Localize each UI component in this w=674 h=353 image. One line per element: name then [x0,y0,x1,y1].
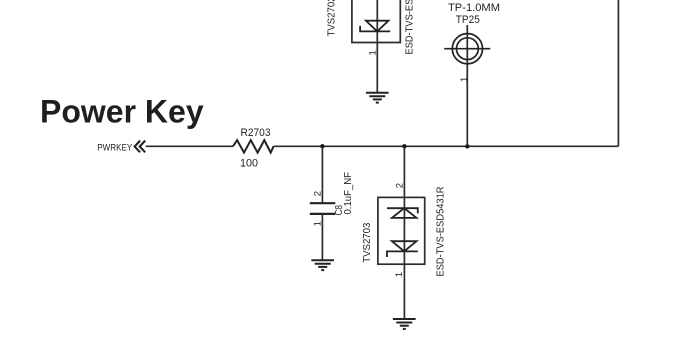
svg-text:PWRKEY: PWRKEY [97,143,133,154]
svg-text:TVS2702: TVS2702 [326,0,337,37]
svg-text:2: 2 [312,191,323,196]
label R2703 [241,127,271,139]
TVS diode U TVS2702 body box cut off at top [352,0,400,43]
wire R2703 to corner (main bus) [274,145,619,147]
ground below C8 [311,260,334,270]
capacitor C8 [310,203,336,214]
value ESD-TVS-ESD5431R [436,187,447,277]
wire bus up to test point TP25 [466,25,468,146]
wire through TVS2703 box [403,197,405,264]
pin 1 of C8 [313,221,324,226]
test point TP25 symbol outer circle [452,34,482,64]
pin 1 of TVS2702 [368,50,379,55]
pin 1 of TVS2703 [394,272,405,277]
node junction at TVS2703 branch [402,144,406,148]
label TP25 [456,14,480,26]
svg-text:TVS2703: TVS2703 [362,222,373,262]
label TVS2702 cut at top [326,0,337,37]
svg-text:TP25: TP25 [456,14,480,26]
pin 2 of TVS2703 [394,183,405,188]
label TP-1.0MM [448,2,500,14]
svg-text:ESD-TVS-ESD5431R: ESD-TVS-ESD5431R [405,0,416,55]
node junction at TP25 branch [465,144,469,148]
svg-text:R2703: R2703 [241,127,271,139]
value 0.1uF_NF [343,172,354,215]
off-page connector arrow PWRKEY [135,141,146,153]
wire through TVS2702 box from top edge [376,0,378,43]
wire bus to TVS2703 box [403,146,405,198]
svg-text:1: 1 [459,77,470,82]
svg-text:TP-1.0MM: TP-1.0MM [448,2,500,14]
net label PWRKEY [97,143,133,154]
zener diode top half of TVS2703 cathode up [387,208,418,218]
resistor R2703 [233,140,274,152]
TVS diode U TVS2703 body box [378,197,425,264]
value 100 [240,158,258,170]
svg-text:0.1uF_NF: 0.1uF_NF [343,172,354,215]
test point TP25 symbol inner circle [457,38,479,60]
wire C8 bottom plate to ground [321,214,323,260]
node junction at C8 branch [320,144,324,148]
pin 2 of C8 [312,191,323,196]
title Power Key [40,94,204,130]
svg-text:Power Key: Power Key [40,94,204,130]
test point TP25 crosshair horizontal [444,48,490,50]
svg-text:1: 1 [394,272,405,277]
pin 1 of TP25 [459,77,470,82]
wire bus to C8 top plate [321,146,323,203]
zener diode bottom half of TVS2703 cathode down [387,241,418,257]
label C8 [334,205,345,216]
label TVS2703 [362,222,373,262]
zener diode of TVS2702 cathode down [360,21,390,32]
wire PWRKEY to R2703 [146,145,233,147]
ground below TVS2703 [393,319,416,329]
wire TVS2702 to ground [376,43,378,93]
svg-text:100: 100 [240,158,258,170]
svg-text:ESD-TVS-ESD5431R: ESD-TVS-ESD5431R [436,187,447,277]
svg-text:2: 2 [394,183,405,188]
ground below TVS2702 [366,93,389,103]
wire vertical right riser going off top [617,0,619,146]
value ESD-TVS-ESD5431R of TVS2702 cut at top [405,0,416,55]
wire TVS2703 to ground [403,264,405,319]
